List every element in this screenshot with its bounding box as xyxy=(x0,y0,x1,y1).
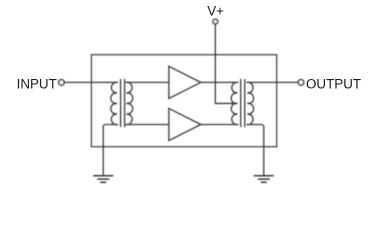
wire V+ to T2 primary center tap xyxy=(215,24,237,103)
ground GND2 xyxy=(254,176,274,183)
wire amp A1 output to T2 primary top xyxy=(201,81,238,83)
ground GND1 xyxy=(93,176,113,183)
output terminal xyxy=(298,80,304,86)
wire T1 secondary top to amp A1 input xyxy=(126,81,169,83)
amplifier A2 xyxy=(169,108,201,140)
enclosure box xyxy=(91,55,276,147)
transformer T2 primary winding xyxy=(231,82,238,124)
wire T1 primary bottom to ground xyxy=(103,125,118,176)
transformer T1 primary winding xyxy=(111,82,118,124)
transformer T1 core xyxy=(120,79,122,127)
svg-text:OUTPUT: OUTPUT xyxy=(306,76,361,91)
svg-text:V+: V+ xyxy=(207,4,224,19)
transformer T2 secondary winding xyxy=(247,82,254,124)
svg-text:INPUT: INPUT xyxy=(17,76,57,91)
transformer T1 secondary winding xyxy=(126,82,133,124)
input terminal xyxy=(59,80,65,86)
transformer T2 core xyxy=(240,79,242,127)
V+ terminal xyxy=(213,19,218,24)
wire input to T1 primary top xyxy=(64,81,118,83)
wire T1 secondary bottom to amp A2 input xyxy=(126,124,169,126)
amplifier A1 xyxy=(169,66,201,98)
wire T2 secondary top to output xyxy=(247,81,298,83)
wire amp A2 output to T2 primary bottom xyxy=(201,124,238,126)
wire T2 secondary bottom to ground xyxy=(247,125,264,176)
